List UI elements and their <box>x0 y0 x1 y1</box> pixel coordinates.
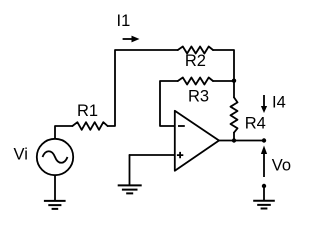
resistor R4 <box>231 97 238 132</box>
resistor R1 <box>72 122 107 130</box>
resistor R2 <box>178 47 213 54</box>
wire <box>263 186 265 200</box>
ground <box>118 185 142 193</box>
source Vi <box>37 139 73 175</box>
ground <box>44 201 66 209</box>
wire <box>129 155 131 185</box>
svg-text:Vi: Vi <box>14 146 28 164</box>
wire <box>233 133 235 141</box>
wire <box>54 175 56 200</box>
wire <box>213 80 234 82</box>
wire <box>55 126 72 139</box>
node output dot <box>232 138 236 142</box>
svg-text:R1: R1 <box>77 102 98 120</box>
resistor R3 <box>178 78 213 85</box>
node Vo top terminal dot <box>262 138 266 142</box>
wire <box>130 154 175 156</box>
svg-text:I4: I4 <box>272 93 286 111</box>
current arrow I4 <box>261 93 286 113</box>
svg-text:R3: R3 <box>188 88 209 106</box>
node junction dot <box>232 79 236 83</box>
wire <box>233 81 235 98</box>
op-amp U1 <box>175 111 219 171</box>
wire <box>108 50 178 126</box>
wire <box>213 50 234 81</box>
svg-text:Vo: Vo <box>272 156 291 174</box>
svg-text:R4: R4 <box>245 114 266 132</box>
current arrow I1 <box>117 12 140 43</box>
ground <box>253 201 275 209</box>
wire <box>160 81 178 126</box>
node Vo bottom terminal dot <box>262 184 266 188</box>
wire <box>219 140 264 142</box>
svg-text:R2: R2 <box>185 52 206 70</box>
svg-text:I1: I1 <box>117 12 131 30</box>
voltage arrow Vo <box>261 146 291 178</box>
